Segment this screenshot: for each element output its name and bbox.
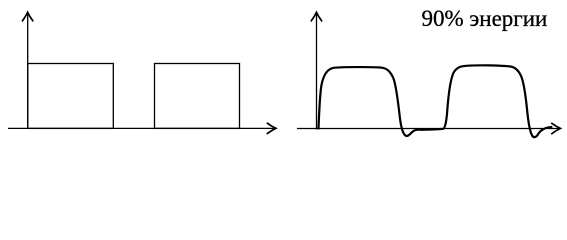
right plot vertical axis	[316, 14, 318, 130]
right plot horizontal axis arrowhead	[552, 123, 561, 133]
left plot vertical axis	[27, 14, 29, 129]
right plot horizontal axis	[297, 128, 559, 130]
smoothed pulse curve	[319, 65, 552, 137]
rectangular pulse 1	[28, 64, 114, 129]
caption	[422, 6, 567, 32]
left plot vertical axis arrowhead	[22, 12, 33, 21]
rectangular pulse 2	[155, 64, 240, 129]
left plot horizontal axis	[8, 127, 275, 129]
right plot vertical axis arrowhead	[311, 12, 322, 21]
left plot horizontal axis arrowhead	[267, 123, 276, 133]
